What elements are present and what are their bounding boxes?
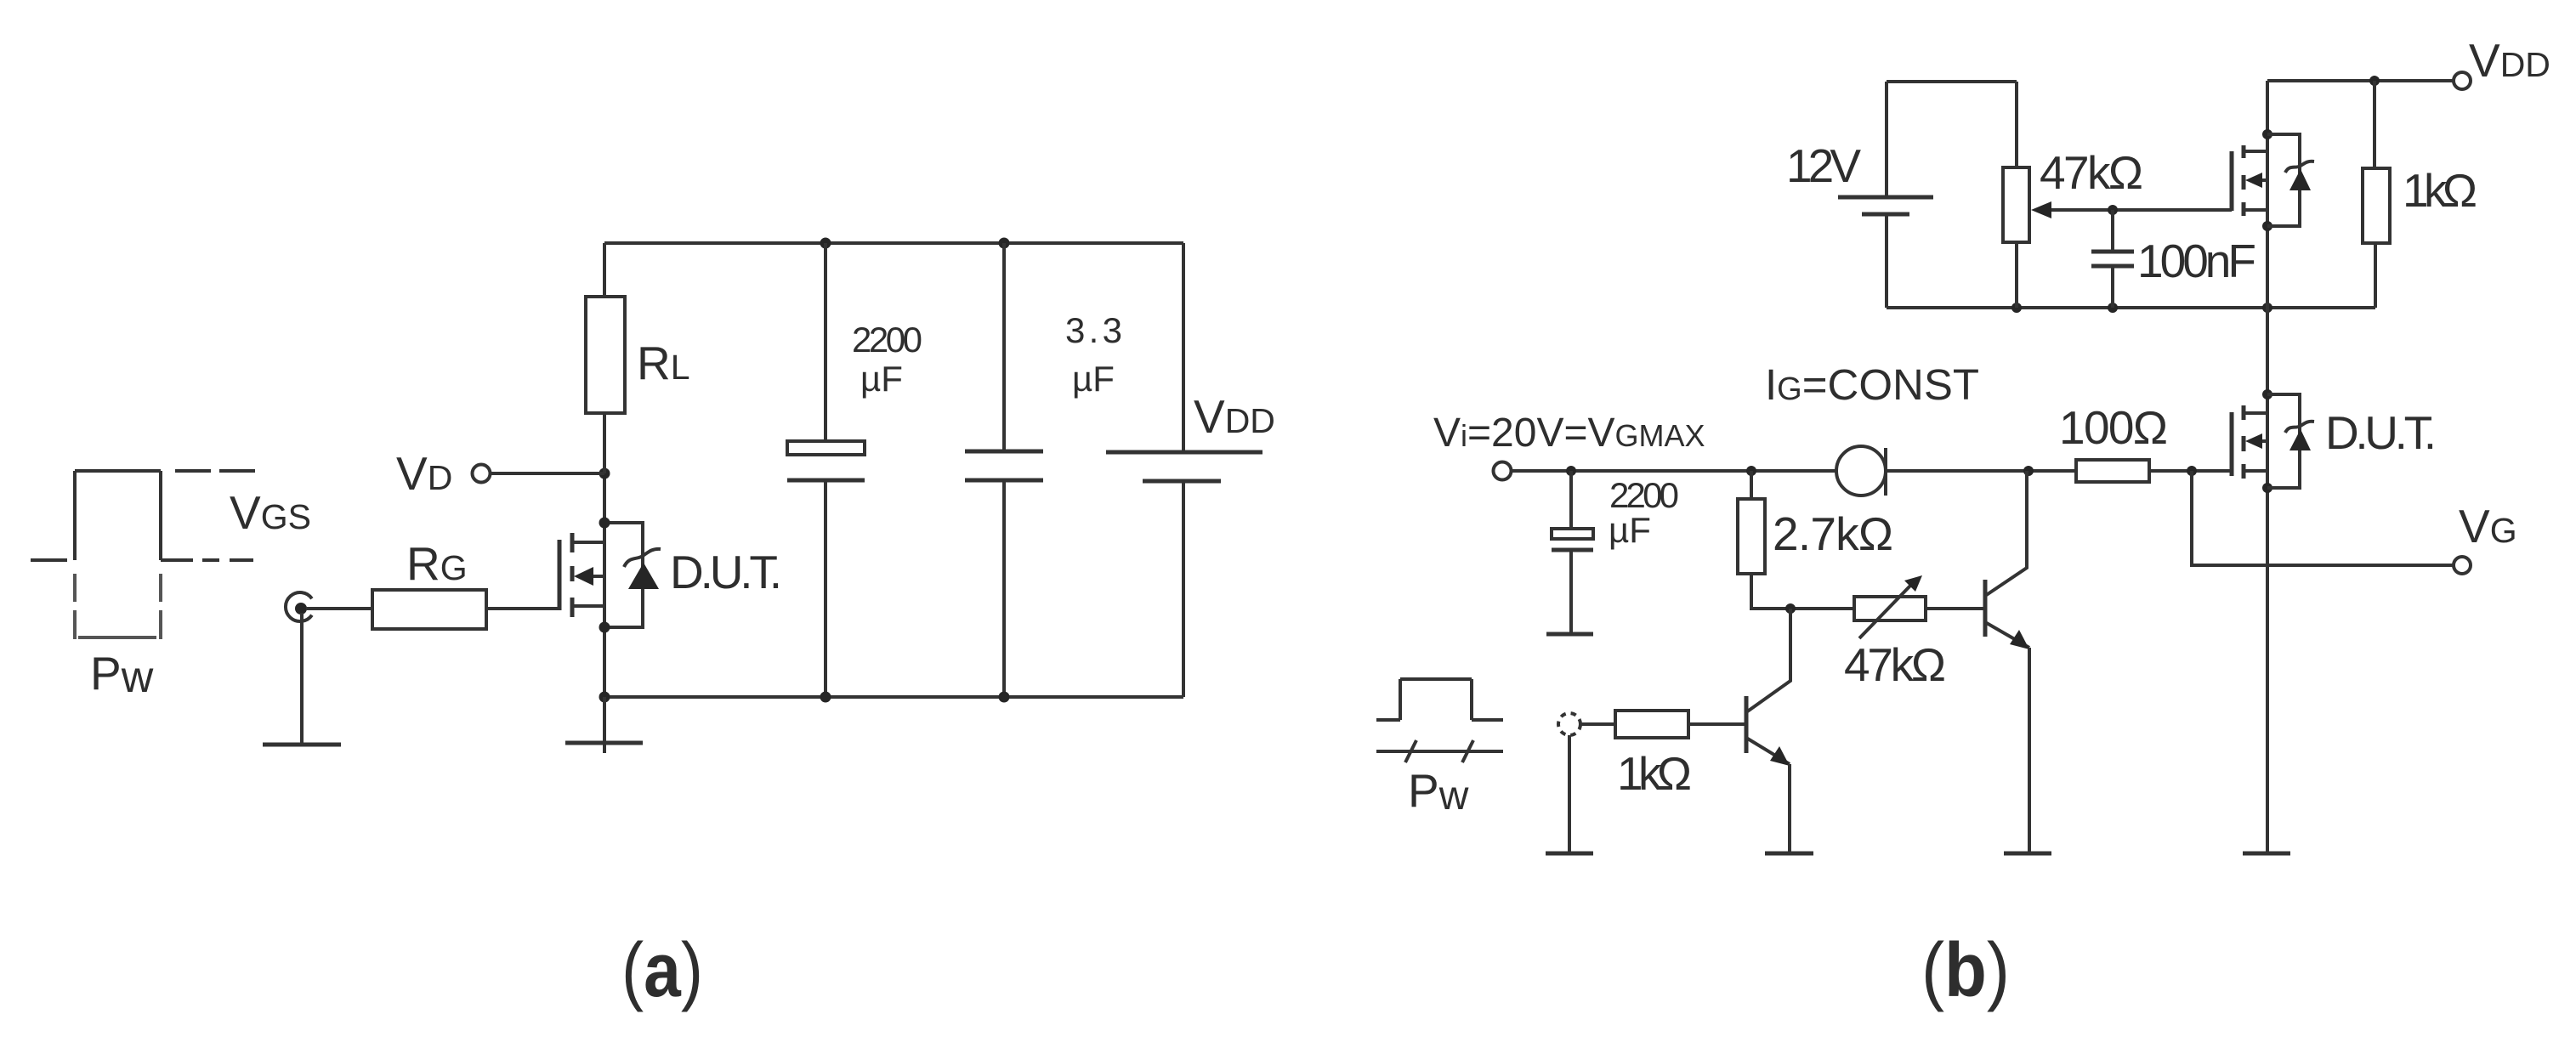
junction dot pot bottom [2011, 303, 2022, 313]
capacitor 2200uF (a) top plate [787, 441, 865, 455]
resistor RL [586, 297, 625, 413]
svg-text:1kΩ: 1kΩ [2403, 164, 2477, 217]
DUT MOSFET (b) source lead [2244, 469, 2267, 473]
top rail (a) [604, 241, 1183, 245]
svg-text:D.U.T.: D.U.T. [2325, 406, 2437, 459]
capacitor 100nF wire top [2111, 210, 2114, 252]
resistor RG [372, 590, 486, 629]
Pw width marker (a) [75, 574, 161, 639]
junction dot DUT diode bottom [2262, 483, 2272, 493]
BJT Q2 base bar [1983, 580, 1988, 637]
junction dot clamp source rail [2262, 303, 2272, 313]
capacitor 3.3uF wire bottom [1002, 480, 1006, 697]
junction dot rail cap2 [999, 692, 1010, 703]
junction dot 2200uF (b) [1566, 466, 1576, 476]
junction dot Q1 collector [1785, 603, 1796, 614]
svg-text:D.U.T.: D.U.T. [670, 546, 782, 598]
capacitor 100nF wire bottom [2111, 266, 2114, 308]
svg-text:µF: µF [1072, 359, 1115, 399]
svg-text:(a): (a) [621, 928, 703, 1013]
ground pulse terminal [1546, 852, 1593, 856]
battery VDD (a) short plate [1143, 479, 1221, 484]
clamp MOSFET channel bars [2242, 145, 2246, 216]
resistor 2.7k wire bottom [1751, 574, 1854, 609]
wire 47k to Q2 base [1926, 607, 1985, 610]
svg-text:100Ω: 100Ω [2059, 401, 2168, 454]
junction dot DUT diode top [2262, 389, 2272, 399]
resistor 1k (bottom) body [1615, 711, 1688, 738]
junction dot diode top (a) [599, 518, 610, 529]
wire BNC to RG [306, 607, 372, 610]
DUT body diode cathode squiggle [2285, 422, 2314, 433]
junction dot 1k top [2369, 76, 2380, 86]
ground (BNC input) [263, 613, 341, 745]
MOSFET D.U.T. (a) body lead + arrow [574, 567, 604, 586]
BNC connector input (a) [286, 592, 312, 621]
DUT MOSFET (b) channel bars [2242, 405, 2246, 479]
capacitor 100nF plates [2091, 252, 2134, 266]
junction dot 2.7k top [1746, 466, 1756, 476]
svg-text:12V: 12V [1786, 139, 1861, 192]
variable resistor 47k body [1854, 597, 1926, 620]
wire VD to drain [491, 472, 604, 475]
current source bar [1884, 448, 1887, 496]
body diode triangle (a) [628, 563, 659, 589]
resistor 2.7k body [1738, 499, 1765, 574]
MOSFET D.U.T. (a) drain lead [572, 541, 604, 544]
svg-text:µF: µF [1609, 510, 1651, 550]
BJT Q2 emitter + arrow [1985, 622, 2029, 649]
svg-text:Pw: Pw [90, 647, 154, 702]
ground Q2 [2004, 852, 2051, 856]
ground Q1 [1765, 852, 1813, 856]
junction dot top rail cap1 [820, 238, 831, 249]
battery VDD (a) wire top [1182, 243, 1185, 452]
capacitor 2200uF (b) wire top [1569, 471, 1573, 529]
wire current source to 100R [1886, 469, 2076, 473]
ground (a) main [565, 697, 643, 753]
Pw annotation line (b) [1376, 750, 1503, 753]
battery 12V wire top [1885, 82, 1888, 197]
top rail (b) [2267, 79, 2454, 82]
junction dot gate/VG [2187, 466, 2197, 476]
ground 2200uF (b) [1546, 632, 1593, 637]
potentiometer 47k wiper arrow [2031, 201, 2232, 218]
potentiometer 47k body [2003, 167, 2029, 242]
DUT MOSFET (b) gate bar [2230, 412, 2234, 476]
resistor 2.7k wire top [1750, 471, 1753, 499]
BJT Q2 emitter vertical [2028, 648, 2031, 853]
svg-text:2200: 2200 [1609, 475, 1679, 515]
VG branch wire [2192, 471, 2454, 565]
resistor 1k (top) wire top [2373, 81, 2376, 168]
capacitor 2200uF (b) wire bottom [1569, 550, 1573, 633]
DUT body diode triangle [2289, 429, 2311, 450]
DUT MOSFET (b) drain lead [2244, 411, 2267, 415]
BJT Q1 emitter + arrow [1746, 738, 1790, 766]
junction dot clamp diode top [2262, 129, 2272, 139]
MOSFET D.U.T. (a) source lead [572, 604, 604, 608]
junction dot top rail cap2 [999, 238, 1010, 249]
main wire Vi to current source [1512, 469, 1836, 473]
variable resistor 47k arrow [1859, 575, 1922, 638]
waveform VGS pulse (a) [31, 471, 255, 560]
junction dot source/rail [599, 692, 610, 703]
terminal Vi circle [1494, 462, 1512, 480]
wire terminal to 1k [1580, 722, 1615, 726]
svg-text:2.7kΩ: 2.7kΩ [1773, 507, 1893, 560]
BJT Q1 base bar [1745, 696, 1749, 753]
resistor 100R body [2076, 460, 2149, 482]
DUT body diode branch [2267, 394, 2300, 488]
capacitor 2200uF (a) wire top [824, 243, 827, 441]
svg-text:47kΩ: 47kΩ [2040, 146, 2143, 199]
wire 1k to Q1 base [1688, 722, 1746, 726]
wire rail up to 1k bottom [2374, 243, 2377, 308]
wire 100R to gate node [2149, 469, 2232, 473]
svg-text:47kΩ: 47kΩ [1844, 638, 1946, 691]
junction dot diode bottom (a) [599, 622, 610, 633]
svg-text:100nF: 100nF [2137, 235, 2256, 287]
capacitor 3.3uF wire top [1002, 243, 1006, 451]
battery 12V wire bottom [1885, 214, 1888, 308]
resistor 1k (top) body [2363, 168, 2390, 243]
DUT MOSFET (b) body lead + arrow [2245, 433, 2267, 449]
capacitor 2200uF (a) wire bottom [824, 480, 827, 697]
bottom rail of 12V box [1887, 306, 2375, 309]
terminal VG circle [2454, 557, 2471, 574]
ground DUT (b) [2243, 852, 2290, 856]
junction dot 100nF bottom [2108, 303, 2118, 313]
battery VDD (a) wire bottom [1182, 481, 1185, 697]
potentiometer 47k wire top [2015, 82, 2018, 167]
terminal ground vertical [1568, 735, 1571, 853]
BJT Q1 emitter vertical [1788, 764, 1791, 853]
junction dot wiper/100nF [2108, 205, 2118, 215]
12V box top rail [1887, 80, 2017, 83]
wire RL to VD node [603, 413, 606, 473]
clamp body diode branch [2267, 134, 2300, 226]
svg-text:(b): (b) [1921, 928, 2010, 1013]
MOSFET D.U.T. (a) channel bars [570, 533, 575, 617]
body diode branch (a) [604, 523, 643, 627]
clamp MOSFET gate bar [2230, 151, 2234, 211]
terminal VDD circle (b) [2454, 72, 2471, 89]
clamp MOSFET drain lead [2244, 150, 2267, 153]
clamp/DUT main vertical (b) [2266, 81, 2269, 853]
junction dot Q2 collector [2023, 466, 2034, 476]
potentiometer 47k wire bottom [2015, 242, 2018, 308]
node VD junction dot [599, 468, 610, 479]
wire top rail to RL [603, 243, 606, 297]
svg-text:3.3: 3.3 [1065, 310, 1122, 350]
waveform Pw pulse (b) [1376, 679, 1503, 720]
body diode cathode squiggle (a) [624, 549, 661, 567]
capacitor 2200uF (b) top plate [1552, 529, 1593, 539]
junction dot clamp diode bottom [2262, 221, 2272, 231]
capacitor 2200uF (b) bottom plate [1552, 548, 1593, 552]
svg-text:µF: µF [860, 359, 903, 399]
svg-text:1kΩ: 1kΩ [1617, 747, 1692, 800]
MOSFET D.U.T. (a) gate bar [558, 540, 562, 610]
junction dot rail cap1 [820, 692, 831, 703]
wire RG to gate [486, 607, 559, 610]
BJT Q1 collector [1746, 609, 1790, 712]
capacitor 2200uF (a) bottom plate [787, 479, 865, 483]
Pw slash marks (b) [1405, 740, 1473, 762]
battery VDD (a) long plate [1106, 450, 1262, 455]
BJT Q2 collector [1985, 471, 2027, 596]
clamp MOSFET source lead [2244, 208, 2267, 212]
clamp body diode cathode squiggle [2285, 161, 2314, 173]
capacitor 3.3uF plates [965, 451, 1043, 480]
drain-source vertical (a) [603, 473, 606, 697]
current source IG circle [1836, 446, 1886, 496]
clamp MOSFET body lead + arrow [2245, 173, 2267, 188]
battery 12V short plate [1862, 212, 1909, 217]
dashed pulse input terminal [1558, 713, 1580, 735]
terminal VD circle [473, 465, 491, 483]
bottom rail (a) [604, 695, 1183, 699]
clamp body diode triangle [2289, 169, 2311, 190]
svg-text:2200: 2200 [852, 320, 922, 360]
battery 12V long plate [1838, 195, 1933, 200]
